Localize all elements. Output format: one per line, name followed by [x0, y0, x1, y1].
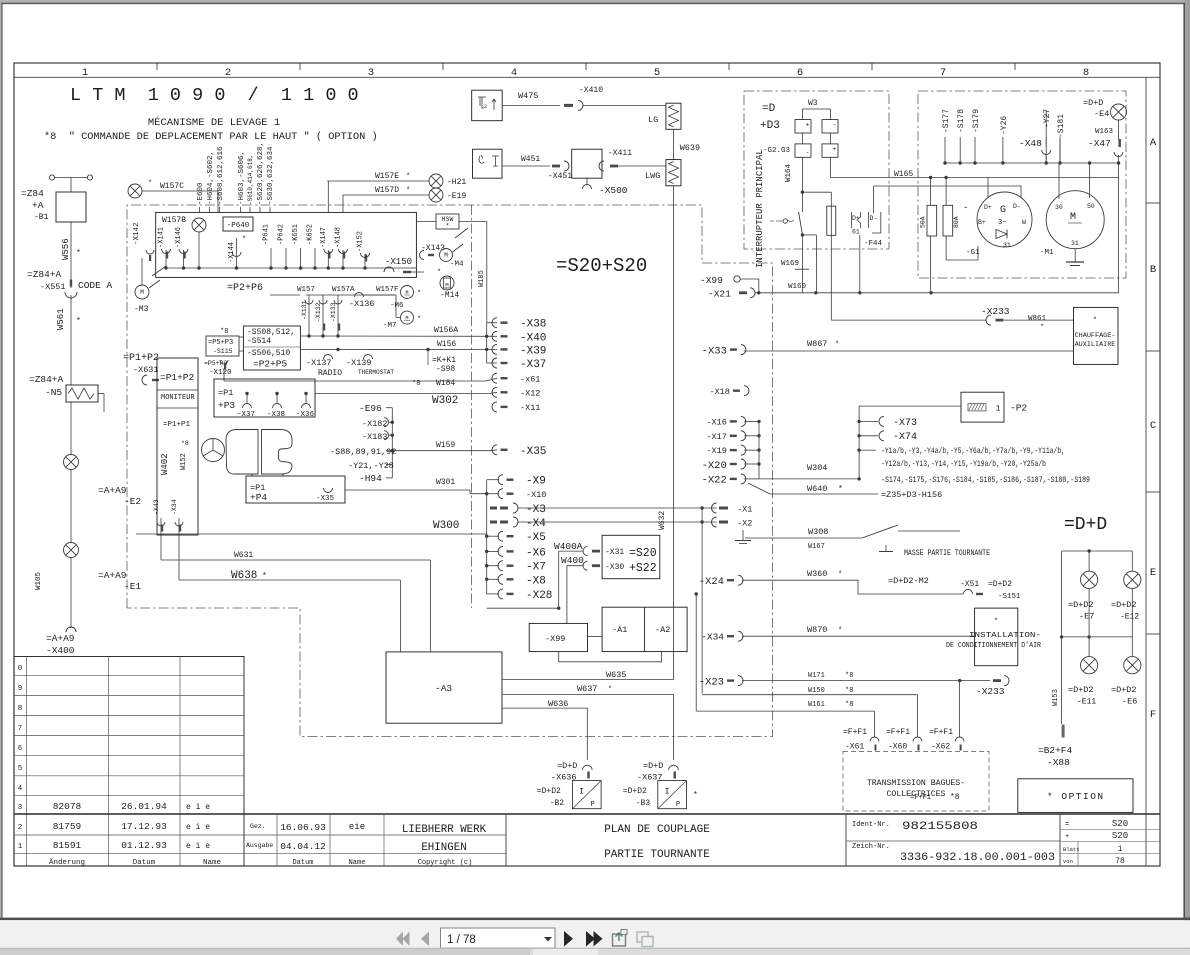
- dash-dot box =D+D3 interrupteur principal: [744, 91, 889, 249]
- svg-text:M: M: [445, 282, 448, 289]
- svg-text:-X47: -X47: [1088, 138, 1111, 149]
- Y-device list line 1: [859, 449, 876, 451]
- stub -X2: [719, 521, 728, 524]
- svg-text:*: *: [838, 571, 842, 579]
- svg-text:-S620,626,628,: -S620,626,628,: [257, 142, 265, 205]
- svg-text:01.12.93: 01.12.93: [121, 840, 167, 851]
- svg-text:=Z84+A: =Z84+A: [29, 374, 64, 385]
- svg-text:8: 8: [18, 705, 23, 713]
- svg-text:EHINGEN: EHINGEN: [421, 842, 466, 854]
- svg-text:31: 31: [1003, 242, 1011, 249]
- svg-text:-M3: -M3: [134, 305, 149, 314]
- svg-text:-Y27: -Y27: [1043, 109, 1052, 128]
- svg-text:82078: 82078: [53, 801, 82, 812]
- wire W169: [801, 233, 804, 236]
- svg-text:-X143: -X143: [421, 244, 445, 253]
- svg-text:=Z84: =Z84: [21, 188, 44, 199]
- svg-text:=P1+P1: =P1+P1: [163, 421, 191, 429]
- svg-text:+: +: [806, 122, 810, 129]
- stub -X9: [498, 475, 503, 485]
- viewer top gray edge: [0, 0, 1190, 3]
- toolbar prev-page button: [421, 932, 429, 947]
- svg-text:W561: W561: [56, 308, 66, 330]
- upper stub bus: [486, 323, 488, 363]
- frame right row-letter band: [1145, 77, 1147, 866]
- lamp -E1 =A+A9: [70, 469, 72, 543]
- svg-text:-S508,512,: -S508,512,: [247, 328, 295, 337]
- svg-text:W157B: W157B: [162, 216, 186, 225]
- svg-text:50: 50: [1087, 203, 1095, 210]
- svg-text:=D+D: =D+D: [643, 761, 663, 771]
- svg-text:+D3: +D3: [760, 120, 780, 132]
- svg-text:-P642: -P642: [278, 224, 286, 245]
- lamp -E2 =A+A9: [70, 402, 72, 455]
- svg-text:-X141: -X141: [158, 227, 166, 248]
- box HSW: [436, 214, 459, 229]
- svg-text:-S178: -S178: [957, 109, 966, 133]
- svg-text:-X33: -X33: [702, 345, 727, 357]
- lamp W157C: [128, 184, 142, 198]
- svg-text:-H94: -H94: [359, 473, 382, 484]
- svg-text:=D: =D: [762, 103, 776, 115]
- svg-text:-X40: -X40: [520, 332, 546, 344]
- svg-text:81759: 81759: [53, 821, 82, 832]
- viewer right gray edge: [1183, 3, 1185, 919]
- svg-text:-S174,-S175,-S176,-S184,-S185,: -S174,-S175,-S176,-S184,-S185,-S186,-S18…: [881, 477, 1090, 485]
- svg-text:Copyright (c): Copyright (c): [418, 859, 473, 867]
- frame top column-number band: [14, 76, 1160, 78]
- svg-text:W360: W360: [807, 569, 827, 579]
- svg-text:-P641: -P641: [263, 224, 271, 245]
- pins -X37 -X38 -X36 of +P3: [246, 394, 248, 405]
- dashed box transmission bagues-collectrices: [843, 752, 989, 812]
- svg-text:Gez.: Gez.: [250, 823, 266, 830]
- svg-text:-H603,-S606,: -H603,-S606,: [238, 151, 246, 205]
- stub -X28: [498, 589, 503, 599]
- svg-text:-: -: [806, 149, 810, 156]
- svg-text:2: 2: [225, 67, 231, 79]
- ground below -M1: [1074, 249, 1076, 262]
- svg-text:2: 2: [18, 824, 23, 832]
- svg-text:-E7: -E7: [1079, 612, 1094, 622]
- svg-text:-E12: -E12: [1120, 613, 1139, 622]
- svg-text:=F+F1: =F+F1: [910, 794, 931, 802]
- svg-text:PLAN DE COUPLAGE: PLAN DE COUPLAGE: [604, 824, 710, 836]
- svg-text:*8: *8: [845, 687, 853, 695]
- svg-text:THERMOSTAT: THERMOSTAT: [358, 369, 394, 376]
- svg-text:-X148: -X148: [335, 227, 343, 248]
- connector -X500: [586, 178, 588, 185]
- svg-text:-X37: -X37: [237, 411, 255, 419]
- box -A1: [602, 607, 687, 651]
- svg-text:-X34: -X34: [171, 499, 178, 515]
- svg-text:=P2+P6: =P2+P6: [227, 283, 263, 294]
- svg-text:=P2+P5: =P2+P5: [253, 359, 288, 370]
- svg-text:LIEBHERR WERK: LIEBHERR WERK: [402, 824, 487, 836]
- wire W164: [801, 157, 803, 212]
- svg-text:W451: W451: [521, 155, 540, 164]
- box -P640 with -X144: [223, 217, 253, 231]
- wire from console to HSW: [416, 221, 436, 223]
- svg-text:-X37: -X37: [520, 359, 546, 371]
- svg-text:*8: *8: [220, 328, 228, 336]
- svg-text:=: =: [1065, 821, 1069, 829]
- svg-text:-S506,510: -S506,510: [247, 349, 290, 358]
- stub -X6: [498, 546, 503, 556]
- svg-text:*: *: [262, 572, 267, 581]
- svg-text:-X7: -X7: [526, 562, 546, 574]
- svg-text:W636: W636: [548, 699, 568, 709]
- svg-text:W635: W635: [606, 670, 626, 680]
- svg-text:W304: W304: [807, 463, 827, 473]
- svg-text:-X233: -X233: [981, 306, 1010, 317]
- svg-text:P: P: [676, 801, 680, 809]
- svg-text:W105: W105: [35, 571, 43, 590]
- svg-text:W631: W631: [234, 551, 253, 560]
- svg-text:*: *: [406, 173, 410, 181]
- svg-text:L T M 1 0 9 0 / 1 1 0 0: L T M 1 0 9 0 / 1 1 0 0: [70, 85, 359, 106]
- svg-text:-B3: -B3: [636, 799, 651, 808]
- lamp -E6 =D+D2: [1131, 637, 1133, 657]
- wire to -X150 -X143: [364, 254, 366, 258]
- svg-text:*: *: [417, 316, 421, 324]
- connector -X631: [142, 375, 147, 385]
- svg-text:S20: S20: [1112, 819, 1128, 829]
- svg-text:-N5: -N5: [45, 387, 62, 398]
- lamp -E12 =D+D2: [1131, 551, 1133, 571]
- box -A2: [644, 607, 646, 651]
- svg-text:81591: 81591: [53, 840, 82, 851]
- svg-text:*8: *8: [950, 793, 960, 802]
- svg-text:-A3: -A3: [435, 683, 452, 694]
- svg-text:9: 9: [18, 685, 23, 693]
- dash-dot divider x=471: [471, 205, 473, 608]
- motor -M6: [401, 286, 414, 299]
- svg-text:5: 5: [18, 765, 23, 773]
- motor -M3: [135, 285, 149, 299]
- svg-text:+: +: [833, 146, 837, 153]
- svg-text:-B2: -B2: [550, 799, 565, 808]
- fuse 50A: [927, 205, 937, 236]
- svg-text:7: 7: [940, 67, 946, 79]
- svg-text:A: A: [1150, 137, 1157, 149]
- svg-text:=K+K1: =K+K1: [432, 356, 456, 365]
- svg-text:-E96: -E96: [359, 403, 382, 414]
- svg-text:-X51: -X51: [960, 580, 979, 589]
- svg-text:=F+F1: =F+F1: [843, 728, 867, 737]
- svg-text:W152: W152: [180, 453, 188, 470]
- moniteur box =P1+P2: [157, 358, 198, 535]
- lamp -H21: [429, 174, 443, 188]
- svg-text:*8 " COMMANDE DE DEPLACEMENT: *8 " COMMANDE DE DEPLACEMENT PAR LE HAUT…: [44, 131, 378, 143]
- svg-text:=D+D2: =D+D2: [1111, 600, 1137, 610]
- svg-text:4: 4: [511, 67, 517, 79]
- svg-text:W640: W640: [807, 484, 827, 494]
- svg-text:W157C: W157C: [160, 182, 184, 191]
- svg-text:-B1: -B1: [34, 213, 49, 222]
- svg-text:=D+D2: =D+D2: [1111, 685, 1137, 695]
- stub -X1: [719, 507, 728, 510]
- riser to -X233: [830, 192, 832, 320]
- lamp -E7 =D+D2: [1088, 551, 1090, 571]
- svg-text:=S20+S20: =S20+S20: [556, 255, 647, 277]
- svg-text:M: M: [140, 289, 144, 296]
- svg-text:RADIO: RADIO: [318, 369, 342, 378]
- stub -X12: [492, 387, 497, 397]
- wire W561: [70, 295, 72, 385]
- fuse 80A: [943, 205, 953, 236]
- svg-text:-X3: -X3: [526, 504, 546, 516]
- wire W160: [755, 292, 1119, 294]
- svg-text:3: 3: [368, 67, 374, 79]
- svg-text:Änderung: Änderung: [49, 858, 85, 867]
- svg-text:W861: W861: [1028, 315, 1047, 323]
- svg-text:W300: W300: [433, 520, 459, 532]
- stub -X7: [498, 561, 503, 571]
- svg-text:-X182: -X182: [362, 419, 388, 429]
- wire X99 to A1: [588, 635, 603, 637]
- svg-text:D-: D-: [870, 215, 878, 222]
- svg-text:-X142: -X142: [133, 222, 141, 245]
- svg-text:3: 3: [18, 804, 23, 812]
- svg-text:Ident-Nr.: Ident-Nr.: [852, 821, 890, 829]
- steering wheel: [202, 439, 225, 462]
- svg-text:1: 1: [1118, 845, 1123, 854]
- svg-text:W: W: [1022, 219, 1026, 226]
- box -B1 =Z84+A: [56, 192, 86, 222]
- svg-text:*: *: [76, 317, 81, 326]
- svg-text:6: 6: [18, 745, 23, 753]
- svg-text:M: M: [1070, 212, 1076, 223]
- svg-text:-X30: -X30: [605, 563, 624, 572]
- wire W156A: [300, 335, 497, 337]
- vertical from X233 junction to -X62: [959, 681, 961, 737]
- bottom scrollbar strip: [0, 948, 1190, 955]
- svg-text:MASSE PARTIE TOURNANTE: MASSE PARTIE TOURNANTE: [904, 550, 990, 558]
- svg-text:W556: W556: [61, 238, 71, 260]
- svg-text:-X233: -X233: [976, 686, 1005, 697]
- wire W153: [1061, 637, 1063, 724]
- box -P2: [859, 405, 961, 407]
- svg-text:-P2: -P2: [1010, 403, 1027, 414]
- lamp -E11 =D+D2: [1088, 637, 1090, 657]
- wire W301: [345, 489, 470, 491]
- svg-text:4: 4: [18, 785, 23, 793]
- svg-text:-K652: -K652: [307, 224, 315, 245]
- svg-text:-X35: -X35: [316, 495, 335, 503]
- svg-text:=B2+F4: =B2+F4: [1038, 745, 1073, 756]
- svg-text:-E11: -E11: [1077, 698, 1096, 707]
- stub -X37 center: [492, 358, 497, 368]
- svg-text:-E19: -E19: [447, 192, 466, 201]
- svg-text:W164: W164: [785, 163, 793, 182]
- svg-text:-X60: -X60: [888, 743, 907, 752]
- svg-text:W169: W169: [781, 260, 799, 268]
- svg-text:-S610,414,618,: -S610,414,618,: [247, 155, 254, 205]
- box * OPTION: [1018, 779, 1133, 813]
- svg-text:=D+D2-M2: =D+D2-M2: [888, 576, 929, 586]
- lamp mid bus: [1062, 636, 1133, 638]
- svg-text:W160: W160: [788, 283, 807, 291]
- wire W632 long vertical: [673, 186, 675, 680]
- svg-text:-X19: -X19: [706, 446, 726, 456]
- svg-text:-X39: -X39: [520, 345, 546, 357]
- svg-text:*: *: [148, 180, 152, 188]
- svg-text:-X62: -X62: [931, 743, 950, 752]
- svg-text:W163: W163: [1095, 128, 1114, 136]
- svg-text:-X136: -X136: [349, 299, 375, 309]
- svg-text:-X8: -X8: [526, 575, 546, 587]
- box -A3: [386, 652, 502, 723]
- wire W360: [742, 580, 963, 594]
- lamp inside console: [192, 218, 206, 232]
- svg-text:-P640: -P640: [227, 222, 250, 230]
- svg-text:D-: D-: [1013, 203, 1021, 210]
- svg-text:-X500: -X500: [599, 185, 628, 196]
- pictogram box hook: [473, 149, 503, 178]
- svg-text:=P1+P2: =P1+P2: [160, 372, 195, 383]
- toolbar next-page button: [564, 931, 573, 947]
- svg-text:=P5+P3: =P5+P3: [208, 339, 233, 347]
- svg-text:CHAUFFAGE-: CHAUFFAGE-: [1075, 332, 1116, 340]
- svg-text:=P5+P3: =P5+P3: [204, 360, 228, 367]
- svg-text:C: C: [1150, 420, 1156, 432]
- stub -X39: [492, 344, 497, 354]
- svg-text:W157A: W157A: [332, 286, 355, 294]
- svg-text:30: 30: [1055, 204, 1063, 211]
- svg-text:=A+A9: =A+A9: [98, 485, 127, 496]
- revision table grid: [14, 657, 244, 867]
- svg-text:von: von: [1063, 858, 1073, 865]
- svg-text:Name: Name: [203, 859, 221, 867]
- svg-text:F: F: [1150, 709, 1156, 721]
- svg-text:-X637: -X637: [637, 773, 663, 783]
- svg-text:e i e: e i e: [186, 842, 210, 851]
- svg-text:-X1: -X1: [737, 505, 752, 515]
- svg-text:D+: D+: [984, 204, 992, 211]
- wire X99 bottom to A2 bottom: [559, 652, 662, 662]
- svg-text:W632: W632: [658, 511, 667, 530]
- stub -X8: [498, 574, 503, 584]
- svg-text:-S88,89,91,92: -S88,89,91,92: [330, 447, 396, 457]
- box =S20 +S22: [602, 535, 660, 578]
- svg-text:04.04.12: 04.04.12: [280, 841, 326, 852]
- svg-text:=D+D: =D+D: [557, 761, 577, 771]
- svg-text:-E6: -E6: [1122, 697, 1137, 707]
- svg-text:*: *: [417, 290, 421, 298]
- viewer left gray edge: [0, 0, 1, 918]
- svg-text:-E4: -E4: [1094, 109, 1109, 119]
- stub -X38: [492, 318, 497, 328]
- svg-text:W185: W185: [478, 270, 486, 287]
- box installation conditionnement air: [975, 608, 1018, 666]
- wire W556: [70, 222, 72, 288]
- svg-text:-X24: -X24: [699, 576, 724, 588]
- svg-text:*8: *8: [845, 701, 853, 709]
- svg-text:982155808: 982155808: [902, 821, 978, 833]
- svg-text:*: *: [406, 187, 410, 195]
- svg-text:Zeich-Nr.: Zeich-Nr.: [852, 843, 890, 851]
- svg-text:-X17: -X17: [706, 432, 726, 442]
- svg-text:-X4: -X4: [526, 518, 546, 530]
- svg-text:-X147: -X147: [320, 227, 328, 248]
- svg-text:E: E: [1150, 567, 1156, 579]
- svg-text:*8: *8: [845, 672, 853, 680]
- svg-text:W400: W400: [561, 555, 584, 566]
- svg-text:-X10: -X10: [526, 490, 546, 500]
- svg-text:3336-932.18.00.001-003: 3336-932.18.00.001-003: [900, 852, 1055, 864]
- wire W639: [673, 129, 675, 159]
- title block sheet table S20 S20 1 78: [1060, 829, 1160, 831]
- svg-text:W157E: W157E: [375, 172, 399, 181]
- svg-text:W161: W161: [808, 701, 825, 709]
- svg-text:-X9: -X9: [526, 476, 546, 488]
- stub -X10: [498, 489, 503, 499]
- svg-text:-K651: -K651: [292, 224, 300, 245]
- wire from W400A junction: [487, 607, 559, 609]
- svg-text:+P4: +P4: [250, 492, 267, 503]
- svg-text:W302: W302: [432, 395, 458, 407]
- svg-text:-X150: -X150: [385, 257, 412, 267]
- svg-text:W400A: W400A: [554, 541, 583, 552]
- svg-text:W167: W167: [808, 543, 825, 551]
- stub -X3 plug: [490, 507, 497, 510]
- wire W159: [392, 450, 490, 452]
- svg-text:-G1: -G1: [966, 249, 980, 257]
- lamp bus top: [1062, 550, 1133, 552]
- svg-text:PARTIE TOURNANTE: PARTIE TOURNANTE: [604, 849, 710, 861]
- svg-text:7: 7: [18, 725, 23, 733]
- svg-text:-X73: -X73: [893, 418, 917, 429]
- svg-text:-X133: -X133: [330, 302, 337, 322]
- stub -x61: [492, 373, 497, 383]
- wires W157E W157D to -H21 -E19: [327, 180, 429, 182]
- svg-text:1: 1: [996, 405, 1001, 414]
- svg-text:*: *: [242, 236, 246, 244]
- svg-text:0: 0: [18, 665, 23, 673]
- svg-text:-E1: -E1: [124, 581, 141, 592]
- svg-text:*: *: [838, 627, 842, 635]
- wire 61 to W160 bus: [859, 235, 861, 293]
- svg-text:DE CONDITIONNEMENT D'AIR: DE CONDITIONNEMENT D'AIR: [946, 642, 1042, 650]
- svg-text:-Y21,-Y28: -Y21,-Y28: [348, 461, 394, 471]
- svg-text:5: 5: [654, 67, 660, 79]
- toolbar background: [0, 920, 1190, 948]
- svg-text:=D+D2: =D+D2: [1068, 600, 1094, 610]
- connector -X233 lower: [993, 679, 1001, 682]
- toolbar icon page-with-arrow: [613, 934, 626, 946]
- svg-text:-X5: -X5: [526, 532, 546, 544]
- svg-text:2: 2: [484, 104, 487, 110]
- svg-text:-E600: -E600: [197, 182, 205, 205]
- ground symbol masse: [885, 545, 887, 551]
- svg-text:-Y12a/b,-Y13,-Y14,-Y15,-Y19a/b: -Y12a/b,-Y13,-Y14,-Y15,-Y19a/b,-Y20,-Y25…: [881, 461, 1046, 469]
- console box =P2+P6: [156, 212, 417, 277]
- svg-text:B: B: [1150, 264, 1156, 276]
- svg-text:*8: *8: [181, 440, 189, 447]
- svg-text:MÉCANISME DE LEVAGE 1: MÉCANISME DE LEVAGE 1: [148, 115, 280, 129]
- svg-text:-H21: -H21: [447, 178, 466, 187]
- title block outline: [14, 813, 1160, 815]
- svg-text:-E2: -E2: [124, 496, 141, 507]
- svg-text:-X16: -X16: [706, 417, 726, 427]
- motor -M4: [440, 249, 453, 262]
- svg-text:16.06.93: 16.06.93: [280, 822, 326, 833]
- svg-text:-S98: -S98: [436, 365, 455, 374]
- svg-text:-X23: -X23: [699, 676, 724, 688]
- svg-text:80A: 80A: [953, 216, 960, 228]
- box =P1+P4: [246, 476, 345, 503]
